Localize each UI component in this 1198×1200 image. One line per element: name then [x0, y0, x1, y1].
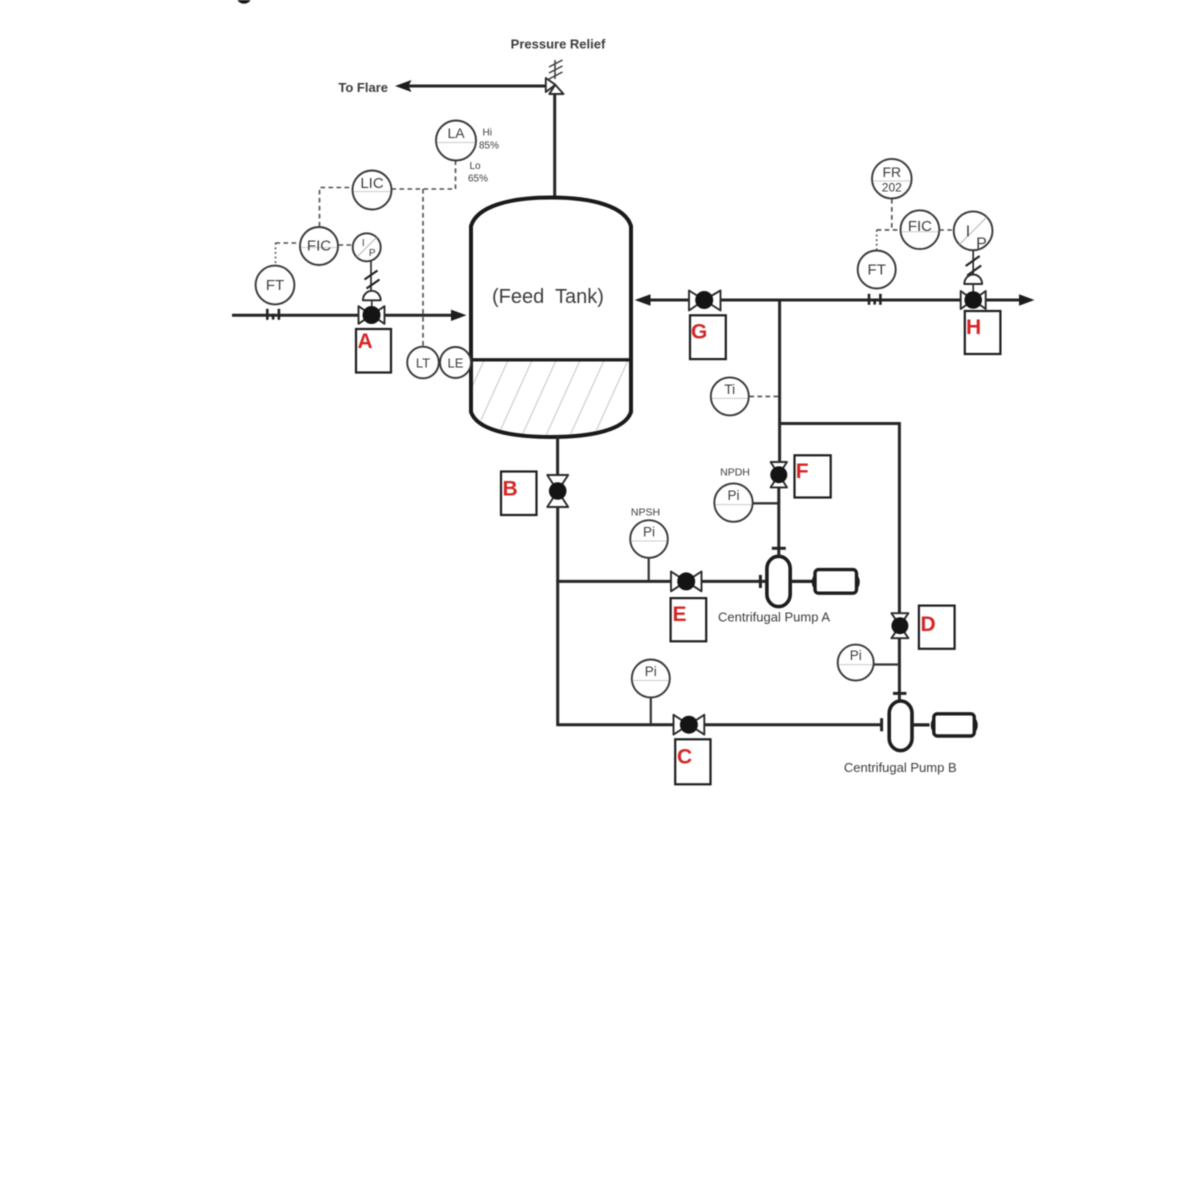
- svg-text:Hi: Hi: [483, 128, 492, 139]
- instrument Pi pump B: [874, 663, 900, 665]
- svg-text:202: 202: [882, 181, 902, 195]
- svg-text:P: P: [369, 248, 376, 259]
- instrument Pi NPDH: [753, 502, 780, 504]
- tag box B: [501, 472, 537, 516]
- pump A suction tick: [759, 575, 762, 588]
- signal: corner to FIC (dashed): [276, 242, 301, 244]
- pressure relief valve: spring marks: [549, 60, 563, 79]
- wire: valve F to pump A: [777, 487, 780, 556]
- wire: feed line: [232, 314, 454, 317]
- actuator dome valve A: [363, 291, 381, 301]
- actuator dome valve H: [964, 275, 982, 285]
- svg-text:LE: LE: [448, 356, 464, 371]
- signal: FT to FIC corner (dotted): [275, 243, 277, 263]
- svg-text:A: A: [358, 330, 373, 353]
- pump A discharge tick: [772, 547, 786, 550]
- arrow: into tank: [635, 294, 651, 305]
- svg-text:LT: LT: [416, 356, 430, 371]
- svg-text:B: B: [503, 478, 518, 501]
- svg-text:Pressure Relief: Pressure Relief: [511, 37, 606, 52]
- svg-text:E: E: [673, 603, 687, 626]
- instrument FT right: [858, 251, 896, 289]
- signal: Ti to riser: [750, 395, 780, 397]
- instrument Ti: [711, 377, 749, 415]
- svg-text:65%: 65%: [468, 174, 488, 185]
- pump B motor: [932, 714, 976, 736]
- wire: valve D to pump B: [898, 638, 901, 701]
- svg-text:FT: FT: [868, 262, 886, 279]
- pressure relief valve body: [546, 78, 564, 94]
- cropped heading glyph fragment: [237, 0, 250, 4]
- pump A motor: [813, 570, 858, 594]
- wire: suction header vertical: [556, 507, 559, 725]
- pump B suction tick: [880, 718, 883, 731]
- tag box C: [675, 739, 710, 784]
- valve E: [671, 572, 702, 592]
- svg-text:Pi: Pi: [727, 488, 739, 503]
- tag box G: [690, 315, 726, 359]
- svg-text:H: H: [966, 316, 981, 339]
- instrument Pi NPSH: [648, 557, 650, 581]
- instrument LT: [407, 347, 439, 379]
- svg-text:Lo: Lo: [470, 161, 482, 172]
- signal: corner down to FT right (dotted): [876, 230, 878, 250]
- svg-text:LA: LA: [447, 125, 465, 141]
- I/P converter left: [353, 233, 381, 261]
- svg-text:D: D: [921, 613, 936, 636]
- svg-text:(Feed Tank): (Feed Tank): [492, 286, 604, 308]
- electric signal to valve H: [966, 250, 982, 278]
- wire: pump A shaft: [790, 580, 812, 583]
- instrument FT left: [256, 266, 295, 305]
- wire: valve E to pump A: [702, 580, 767, 583]
- electric signal to valve A: [365, 262, 380, 292]
- svg-text:F: F: [796, 460, 809, 483]
- signal: corner to FIC right: [877, 229, 901, 231]
- pump A casing: [767, 556, 790, 606]
- flow orifice left: [267, 309, 279, 320]
- valve H: [961, 291, 986, 309]
- wire: tank vent riser: [553, 94, 556, 200]
- svg-text:NPDH: NPDH: [720, 467, 750, 479]
- instrument LA: [436, 121, 476, 161]
- valve G: [689, 291, 721, 311]
- valve C: [674, 715, 705, 735]
- tag box D: [919, 606, 955, 649]
- wire: pump B shaft: [912, 723, 930, 726]
- I/P converter right: [954, 211, 993, 250]
- instrument FR 202: [872, 159, 912, 199]
- valve B: [547, 475, 568, 507]
- svg-text:Pi: Pi: [850, 648, 862, 663]
- instrument FIC right: [901, 210, 940, 249]
- wire: pump A suction branch: [556, 580, 671, 583]
- flow orifice right: [869, 294, 880, 305]
- signal: FIC to I/P: [339, 244, 353, 246]
- svg-text:NPSH: NPSH: [631, 507, 660, 519]
- svg-text:I: I: [362, 238, 365, 249]
- control valve A: [359, 306, 385, 324]
- valve D: [891, 613, 908, 638]
- tank liquid hatch: [448, 356, 654, 440]
- svg-text:P: P: [976, 236, 987, 253]
- instrument LE: [440, 347, 471, 378]
- pump B casing: [889, 701, 912, 751]
- svg-text:Centrifugal Pump B: Centrifugal Pump B: [844, 760, 957, 775]
- svg-text:FT: FT: [266, 277, 284, 294]
- wire: recycle riser above valve F: [778, 300, 781, 463]
- wire: pump B suction line: [556, 723, 881, 726]
- wire: main return header: [648, 299, 1022, 302]
- signal: junction down to LT: [422, 189, 424, 346]
- valve F: [771, 462, 787, 487]
- svg-text:C: C: [677, 746, 692, 769]
- tank liquid level line: [471, 358, 631, 361]
- tag box H: [965, 311, 1001, 354]
- svg-text:Pi: Pi: [643, 525, 655, 540]
- svg-text:Ti: Ti: [724, 382, 735, 397]
- arrow: feed into tank: [451, 310, 467, 321]
- svg-text:FR: FR: [882, 164, 901, 180]
- svg-text:G: G: [691, 321, 707, 344]
- tag box F: [795, 455, 831, 497]
- signal: FR down to corner: [891, 199, 893, 230]
- tag box E: [671, 598, 707, 641]
- pump B discharge tick: [893, 692, 906, 695]
- svg-text:I: I: [966, 224, 970, 241]
- svg-text:85%: 85%: [479, 141, 499, 152]
- wire: tank bottom outlet: [556, 436, 559, 476]
- svg-text:FIC: FIC: [908, 218, 932, 235]
- svg-text:FIC: FIC: [307, 238, 331, 255]
- wire: crossover to pump B riser: [780, 424, 900, 615]
- instrument Pi pump B suction: [650, 697, 652, 724]
- wire: flare header: [407, 85, 546, 88]
- signal: FIC up to LIC line: [320, 188, 353, 227]
- vessel: feed tank shell: [471, 198, 631, 438]
- svg-text:Pi: Pi: [645, 664, 657, 679]
- svg-text:Centrifugal Pump A: Centrifugal Pump A: [718, 610, 830, 625]
- signal: FIC to I/P right: [939, 229, 953, 231]
- svg-text:To Flare: To Flare: [338, 80, 388, 95]
- tag box A: [356, 329, 391, 373]
- svg-text:LIC: LIC: [360, 175, 384, 192]
- arrow: to flare: [395, 80, 412, 92]
- signal: LIC to LA corner: [392, 161, 456, 189]
- arrow: product out: [1019, 294, 1035, 305]
- instrument FIC left: [300, 227, 338, 265]
- instrument LIC: [353, 171, 392, 210]
